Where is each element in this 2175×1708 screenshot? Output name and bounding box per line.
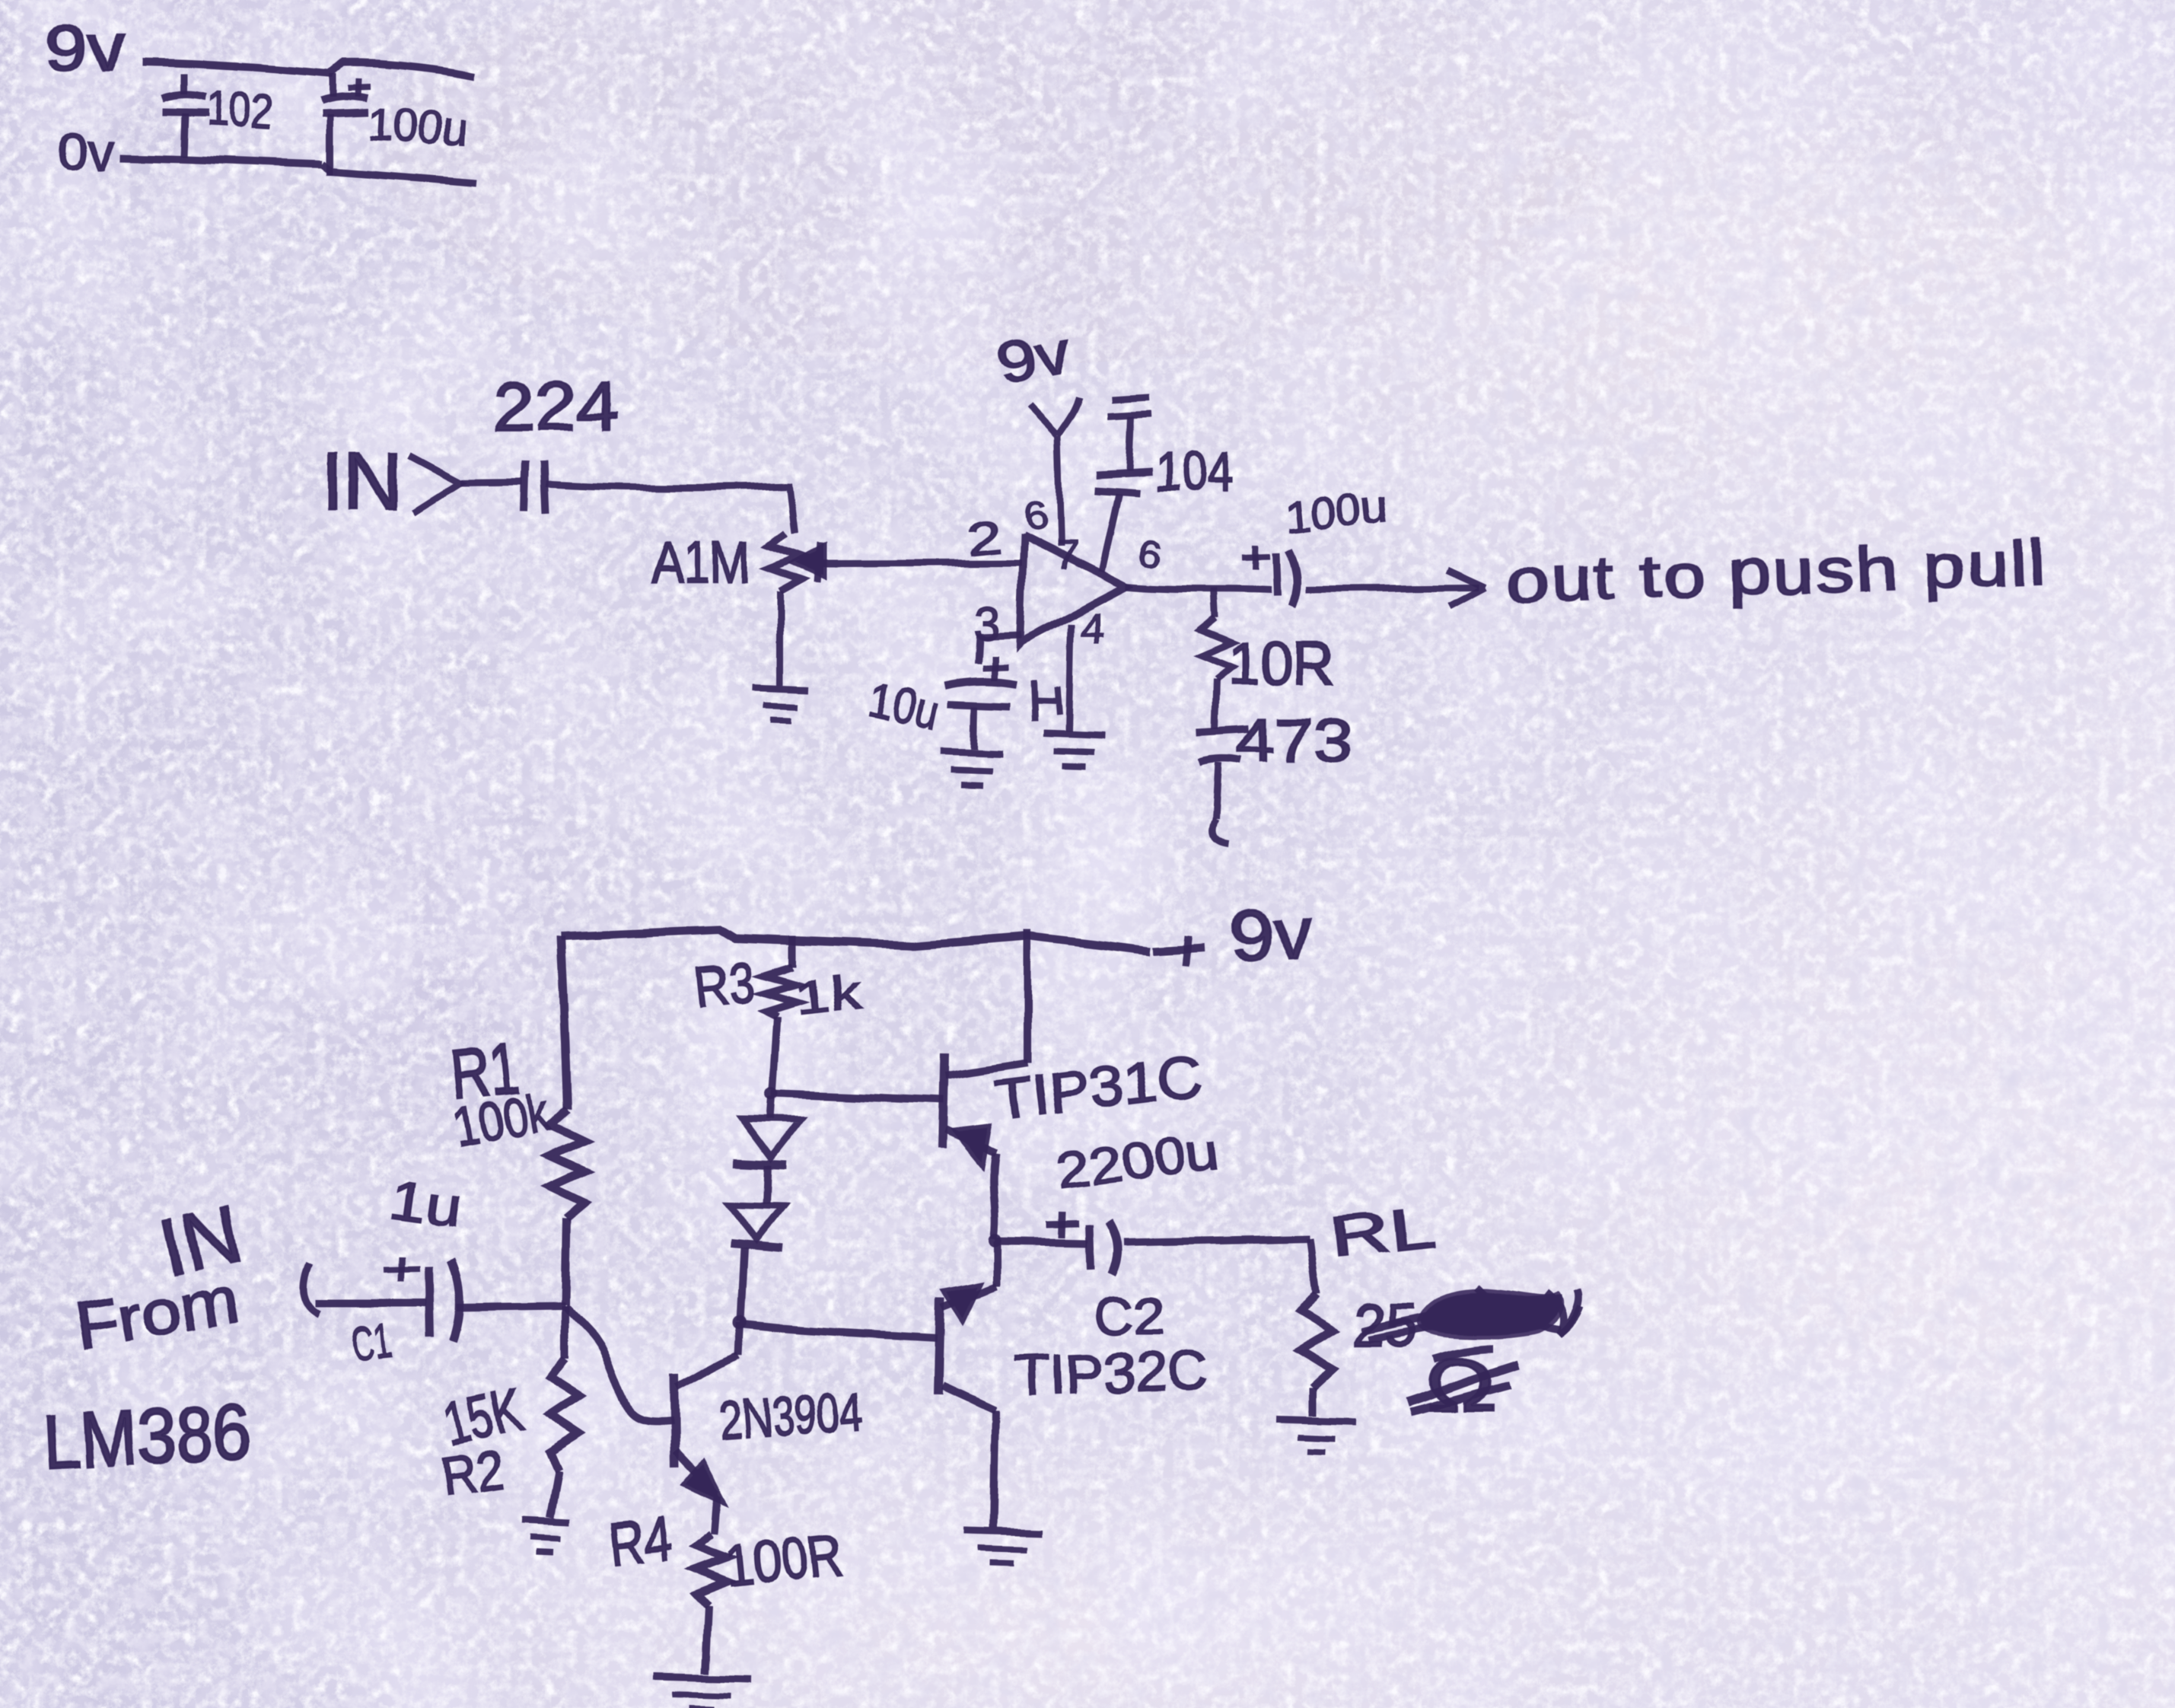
node IN chevron bbox=[408, 455, 460, 511]
svg-text:10R: 10R bbox=[1228, 629, 1334, 697]
diode D2 bbox=[729, 1205, 783, 1240]
ground (A1M) bbox=[753, 687, 809, 690]
stray H mark bbox=[1033, 680, 1059, 722]
resistor R1 100k bbox=[551, 1110, 584, 1218]
wire output arrow bbox=[1306, 588, 1479, 589]
wire wiper to pin 2 bbox=[837, 562, 1021, 563]
potentiometer A1M bbox=[769, 533, 801, 592]
wire pin4 to ground bbox=[1068, 624, 1071, 732]
svg-text:R2: R2 bbox=[437, 1439, 508, 1509]
svg-text:102: 102 bbox=[205, 81, 275, 139]
svg-text:C2: C2 bbox=[1094, 1286, 1164, 1346]
svg-text:RL: RL bbox=[1326, 1195, 1439, 1270]
capacitor 100u output (electrolytic) bbox=[1256, 545, 1256, 569]
resistor R4 100R bbox=[696, 1534, 728, 1606]
wire output pin6 bbox=[1126, 587, 1272, 591]
ground (op-amp pin4) bbox=[1044, 734, 1105, 736]
capacitor 104 (ceramic) bbox=[1129, 416, 1131, 470]
ground (R4) bbox=[653, 1676, 750, 1678]
svg-text:4: 4 bbox=[1081, 604, 1105, 652]
wire input junction to Q3 base bbox=[565, 1306, 673, 1421]
node diode-2N3904 junction bbox=[733, 1316, 747, 1330]
wire input hook bbox=[303, 1263, 426, 1314]
op-amp U1 triangle bbox=[1020, 534, 1126, 643]
svg-text:473: 473 bbox=[1236, 706, 1353, 774]
ground (R2) bbox=[522, 1521, 569, 1523]
svg-text:2: 2 bbox=[965, 511, 1004, 565]
ground (10u) bbox=[941, 751, 1003, 754]
wire output to C2 bbox=[995, 1242, 1088, 1244]
wire rail to R1 bbox=[561, 936, 568, 1110]
resistor RL bbox=[1310, 1239, 1317, 1293]
svg-text:9v: 9v bbox=[44, 12, 126, 84]
svg-text:A1M: A1M bbox=[651, 528, 751, 596]
resistor R3 stub bbox=[789, 936, 797, 966]
node output junction bbox=[989, 1235, 1002, 1248]
wire pot to ground bbox=[776, 592, 783, 685]
wire cap 224 to pot bbox=[546, 484, 795, 533]
svg-text:TIP32C: TIP32C bbox=[1014, 1340, 1209, 1407]
svg-text:R3: R3 bbox=[692, 949, 757, 1020]
capacitor 10u (electrolytic) bbox=[992, 656, 998, 680]
wire C2 to RL bbox=[1125, 1239, 1310, 1243]
svg-text:0v: 0v bbox=[56, 123, 114, 180]
wire IN to cap bbox=[460, 482, 522, 483]
diode D1 bbox=[770, 1097, 772, 1120]
transistor Q3 2N3904 bbox=[674, 1374, 675, 1467]
wire junction to TIP31C base bbox=[772, 1094, 944, 1101]
svg-text:1u: 1u bbox=[387, 1170, 466, 1240]
svg-text:104: 104 bbox=[1155, 442, 1233, 503]
svg-text:9v: 9v bbox=[994, 318, 1076, 397]
capacitor C1 (electrolytic) bbox=[428, 1267, 430, 1337]
svg-text:R4: R4 bbox=[607, 1504, 674, 1578]
capacitor 100u (electrolytic) bbox=[330, 74, 336, 97]
wire 9V rail bbox=[143, 62, 475, 76]
wire C1 to junction bbox=[457, 1305, 565, 1307]
capacitor 102 (ceramic) bbox=[181, 74, 188, 94]
resistor 10R bbox=[1201, 618, 1231, 680]
svg-text:LM386: LM386 bbox=[40, 1388, 253, 1486]
wire +9v rail bbox=[561, 929, 1151, 951]
capacitor C2 (electrolytic) bbox=[1062, 1212, 1062, 1238]
svg-text:100u: 100u bbox=[366, 99, 469, 154]
resistor R2 15K bbox=[561, 1305, 568, 1358]
wire 0V rail bbox=[120, 158, 478, 183]
resistor R3 1k bbox=[764, 966, 796, 1017]
capacitor C1 plus bbox=[400, 1257, 401, 1282]
wire 9v supply Y bbox=[1029, 397, 1078, 546]
svg-text:2N3904: 2N3904 bbox=[717, 1381, 865, 1451]
wire junction to TIP32C base bbox=[740, 1324, 938, 1338]
capacitor 473 (ceramic) bbox=[1196, 728, 1250, 731]
capacitor 104 top bars bbox=[1110, 397, 1150, 399]
node R3-diode junction bbox=[765, 1087, 779, 1101]
svg-text:IN: IN bbox=[323, 438, 402, 526]
scratched out value bbox=[1420, 1293, 1560, 1336]
ground (TIP32C) bbox=[963, 1530, 1043, 1532]
svg-text:9v: 9v bbox=[1228, 891, 1314, 978]
capacitor 224 (film) bbox=[524, 461, 525, 511]
node +9v label bbox=[1154, 948, 1205, 951]
svg-text:224: 224 bbox=[493, 369, 618, 445]
potentiometer wiper arrow bbox=[796, 548, 823, 575]
wire branch to 10R bbox=[1215, 588, 1216, 618]
transistor Q1 TIP31C bbox=[942, 1053, 944, 1148]
svg-text:C1: C1 bbox=[349, 1312, 393, 1372]
ground (RL) bbox=[1277, 1419, 1356, 1421]
svg-text:1k: 1k bbox=[791, 966, 865, 1025]
svg-text:100R: 100R bbox=[724, 1522, 845, 1598]
wire pin3 bbox=[979, 635, 1021, 664]
transistor Q2 TIP32C bbox=[938, 1297, 941, 1394]
